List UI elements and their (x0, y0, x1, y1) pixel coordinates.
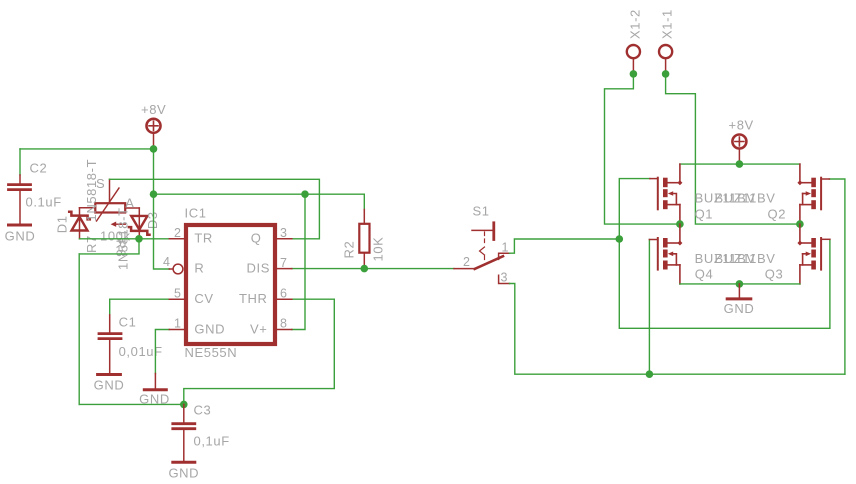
wire gate Q3 run (619, 239, 830, 328)
svg-text:X1-2: X1-2 (628, 9, 643, 39)
svg-text:1: 1 (174, 317, 181, 331)
wire S1 pin1 net (510, 239, 620, 253)
svg-text:NE555N: NE555N (185, 345, 238, 360)
svg-text:R: R (194, 261, 204, 276)
svg-text:GND: GND (139, 392, 170, 407)
op-amp IC1 NE555N box (185, 206, 276, 361)
pin 5 CV (169, 286, 213, 306)
resistor R2 (342, 194, 386, 268)
svg-text:4: 4 (163, 255, 170, 269)
pin 2 TR (169, 226, 213, 246)
svg-text:Q1: Q1 (695, 207, 714, 222)
svg-text:2: 2 (174, 226, 181, 240)
wire left vertical rail (78, 254, 80, 405)
svg-text:1N5818-T: 1N5818-T (84, 159, 99, 222)
wire bottom rail to C3 (79, 403, 184, 405)
wire S1 pin3 net (510, 284, 845, 375)
svg-text:3: 3 (280, 226, 287, 240)
wire +8V vertical (154, 149, 170, 269)
node junction gates A (616, 235, 624, 243)
svg-text:Q4: Q4 (695, 267, 714, 282)
svg-text:0,1uF: 0,1uF (194, 434, 230, 449)
svg-text:DIS: DIS (247, 261, 270, 276)
wire +8V rail (154, 193, 365, 195)
wire drain rail (680, 163, 800, 165)
svg-text:BUZ11BV: BUZ11BV (715, 191, 776, 206)
pin 7 DIS (247, 256, 292, 276)
svg-text:S1: S1 (473, 204, 490, 219)
wire C2 down (19, 149, 21, 175)
svg-text:TR: TR (194, 231, 213, 246)
svg-text:CV: CV (194, 291, 213, 306)
node junction Q1/Q4 (676, 220, 684, 228)
supply +8V left (141, 102, 166, 149)
pin 1 GND (169, 317, 225, 337)
svg-text:+8V: +8V (141, 102, 166, 117)
svg-text:IC1: IC1 (185, 206, 207, 221)
capacitor C1 (99, 299, 169, 373)
diode D3 (116, 207, 161, 270)
wire TR net (80, 238, 170, 240)
svg-text:GND: GND (194, 321, 225, 336)
wire TR to lower rail (79, 239, 139, 254)
transistor Q3 (765, 224, 830, 284)
ground C3 (168, 462, 199, 480)
svg-text:V+: V+ (250, 321, 267, 336)
ground C1 (94, 375, 125, 393)
svg-text:C1: C1 (119, 315, 137, 330)
svg-text:THR: THR (239, 291, 268, 306)
wire C2 top rail (20, 148, 154, 150)
svg-text:R2: R2 (342, 241, 357, 259)
capacitor C3 (173, 403, 230, 461)
svg-text:Q: Q (251, 231, 262, 246)
connector X1-2 (627, 9, 643, 74)
node junction +8V/C2 (150, 145, 158, 153)
ground H-bridge (724, 284, 755, 316)
svg-text:C3: C3 (194, 403, 212, 418)
pin 3 Q (251, 226, 292, 246)
node junction X1-1 (662, 70, 670, 78)
wire gate Q4 drop (648, 240, 650, 375)
capacitor C2 (9, 161, 62, 224)
ground IC1 (139, 374, 170, 407)
wire X1-1 net (666, 74, 800, 224)
node junction GND rail (736, 280, 744, 288)
svg-text:8: 8 (280, 317, 287, 331)
wire X1-2 net (605, 74, 680, 224)
pin 8 V+ (250, 317, 292, 337)
svg-text:Q3: Q3 (765, 267, 784, 282)
wire V+ drop (292, 194, 305, 329)
wire THR net (184, 299, 334, 404)
node junction +8V rail (150, 190, 158, 198)
switch S1 (454, 204, 510, 285)
diode D1 (55, 159, 100, 253)
node junction V+ (301, 190, 309, 198)
transistor Q2 (768, 164, 830, 224)
svg-text:R7: R7 (84, 235, 99, 253)
node junction Q2/Q3 (796, 220, 804, 228)
pin 4 R (163, 255, 204, 276)
svg-text:D1: D1 (55, 215, 70, 233)
svg-text:6: 6 (280, 286, 287, 300)
node junction gates B (646, 370, 654, 378)
svg-text:0.1uF: 0.1uF (26, 195, 62, 210)
trimmer R (100k) (80, 176, 140, 257)
node junction C3 (180, 401, 188, 409)
svg-text:GND: GND (94, 378, 125, 393)
svg-text:D3: D3 (145, 211, 160, 229)
pin 6 THR (239, 286, 292, 306)
ground C2 (5, 225, 36, 244)
svg-text:C2: C2 (30, 161, 48, 176)
wire Q output to wiper (110, 179, 320, 239)
wire gate Q2 riser (829, 179, 845, 374)
svg-text:X1-1: X1-1 (660, 9, 675, 39)
svg-text:BUZ11BV: BUZ11BV (715, 251, 776, 266)
svg-text:1: 1 (502, 241, 509, 255)
connector X1-1 (659, 9, 675, 74)
svg-text:GND: GND (5, 229, 36, 244)
wire source rail (680, 283, 800, 285)
svg-text:GND: GND (168, 466, 199, 481)
wire IC gnd (155, 330, 169, 374)
wire gate Q1 (619, 179, 650, 239)
node junction X1-2 (630, 70, 638, 78)
svg-text:2: 2 (463, 255, 470, 269)
svg-text:GND: GND (724, 301, 755, 316)
transistor Q1 (650, 164, 776, 224)
node junction DIS (361, 265, 369, 273)
node junction +8V right (736, 160, 744, 168)
svg-text:7: 7 (280, 256, 287, 270)
svg-text:Q2: Q2 (768, 207, 787, 222)
node junction TR (135, 235, 143, 243)
svg-text:5: 5 (174, 286, 181, 300)
svg-text:+8V: +8V (729, 118, 754, 133)
svg-text:3: 3 (501, 271, 508, 285)
svg-text:10K: 10K (371, 237, 386, 262)
transistor Q4 (649, 224, 775, 284)
supply +8V right (729, 118, 754, 165)
wire DIS net (292, 268, 454, 270)
